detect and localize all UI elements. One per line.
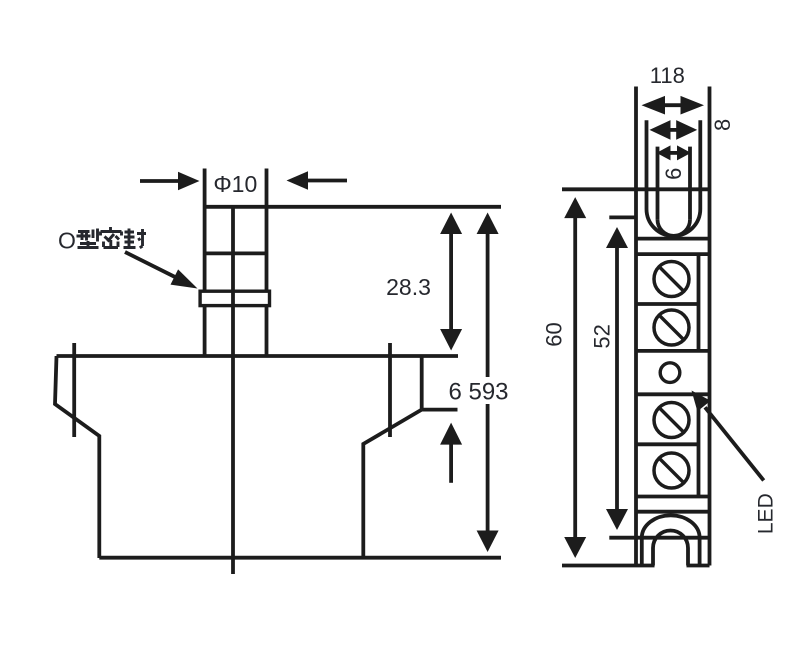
body left outline <box>55 356 99 558</box>
right view: line below box1 <box>636 349 710 353</box>
left view: tube center line <box>231 207 235 574</box>
body bottom line <box>99 556 501 560</box>
right view: divider line box2 <box>636 442 699 446</box>
screw terminal 1 circle <box>654 262 689 297</box>
body left tick <box>72 343 76 437</box>
label CJK mi (seal) glyph strokes <box>101 227 122 248</box>
right view: inner vertical upper <box>697 254 701 351</box>
right view: clip big arc <box>642 515 700 565</box>
dimension 60 line <box>573 216 577 539</box>
right view: divider line box1 <box>636 302 699 306</box>
svg-text:O: O <box>58 228 76 254</box>
LED indicator circle <box>660 363 680 383</box>
dimension 6.5 arrow shaft <box>449 443 453 483</box>
right view: tube outer left line <box>645 120 649 209</box>
svg-text:8: 8 <box>710 119 735 131</box>
dimension 8 right arrowhead <box>676 120 697 140</box>
right view: tube inner left line <box>656 147 660 220</box>
right view: bottom edge left segment <box>562 564 655 568</box>
right view: tube outer U curve <box>647 209 701 236</box>
arrowhead right Phi10 <box>287 171 309 189</box>
dimension 93 top arrowhead <box>477 213 499 235</box>
dimension 6 left arrowhead <box>657 145 671 160</box>
svg-text:LED: LED <box>755 493 778 534</box>
dimension 60 top arrowhead <box>564 197 586 218</box>
O-ring pointer line <box>125 252 178 279</box>
left view: probe tube left outline <box>203 169 207 357</box>
body step extension line <box>422 408 458 412</box>
dimension 93 bottom arrowhead <box>477 531 499 553</box>
right view: 52 top extension line <box>609 215 636 219</box>
dimension 6.5 arrowhead <box>440 423 462 445</box>
screw terminal 3 circle <box>654 403 689 438</box>
dimension 52 top arrowhead <box>606 227 628 248</box>
screw terminal 1 slot <box>660 267 684 291</box>
dimension 28.3 line <box>449 234 453 332</box>
right view: inner vertical lower <box>697 394 701 496</box>
svg-text:28.3: 28.3 <box>386 274 431 300</box>
dimension 11.8 arrow shaft <box>663 103 683 107</box>
dimension 28.3 top arrowhead <box>440 213 462 235</box>
svg-text:52: 52 <box>589 324 614 348</box>
svg-text:60: 60 <box>541 322 566 346</box>
right view: body right outline <box>708 87 712 566</box>
screw terminal 3 slot <box>660 408 684 432</box>
body right tick <box>388 343 392 437</box>
svg-text:Φ10: Φ10 <box>213 171 257 197</box>
dimension 8 left arrowhead <box>650 120 671 140</box>
LED pointer arrowhead <box>692 391 711 412</box>
LED pointer line <box>705 407 764 480</box>
right view: band line 1 <box>636 237 710 241</box>
svg-text:6: 6 <box>661 168 686 180</box>
arrowhead left Phi10 <box>178 172 200 190</box>
dimension 52 bottom arrowhead <box>606 509 628 530</box>
svg-text:118: 118 <box>650 63 685 88</box>
right view: line below box2 <box>636 495 710 499</box>
right view: body left outline <box>634 87 638 566</box>
left view: probe tube right outline <box>265 169 269 357</box>
svg-text:6 593: 6 593 <box>448 379 508 406</box>
O-ring seal rectangle <box>200 291 269 305</box>
label CJK feng (sealing) glyph strokes <box>124 229 147 248</box>
body right outline diagonal <box>363 410 421 558</box>
body right corner vertical <box>420 356 424 410</box>
dimension 11.8 right arrowhead <box>681 96 705 115</box>
right view: bottom band line <box>636 510 710 514</box>
screw terminal 4 slot <box>660 459 684 483</box>
right view: tube inner right line <box>688 147 692 220</box>
left view: tube cross line upper (extends to dimension lines) <box>205 205 501 209</box>
dimension 52 line <box>615 246 619 511</box>
dimension 8 arrow shaft <box>669 128 679 132</box>
label arrow to Phi10 right <box>306 179 347 183</box>
dimension 93 line lower segment <box>486 404 490 532</box>
screw terminal 2 slot <box>660 316 684 340</box>
right view: tube inner U curve <box>658 220 691 236</box>
dimension 6 right arrowhead <box>677 145 691 160</box>
label CJK xing (type) glyph strokes <box>77 229 99 248</box>
dimension 28.3 bottom arrowhead <box>440 329 462 351</box>
left view: tube cross line lower <box>205 251 267 255</box>
body top line <box>57 354 459 358</box>
right view: clip base line <box>609 536 709 540</box>
right view: line below LED section <box>636 392 710 396</box>
right view: bottom edge right segment <box>687 564 710 568</box>
O-ring pointer arrowhead <box>171 269 198 288</box>
dimension 6 arrow shaft <box>667 151 680 155</box>
label arrow to Phi10 left <box>140 179 180 183</box>
dimension 93 line <box>486 234 490 377</box>
right view: tube outer right line <box>698 120 702 209</box>
right view: mounting plane line <box>562 187 710 191</box>
right view: clip small arch <box>653 531 688 566</box>
dimension 11.8 left arrowhead <box>642 96 666 115</box>
dimension 60 bottom arrowhead <box>564 537 586 558</box>
right view: band line 2 <box>636 252 710 256</box>
screw terminal 2 circle <box>654 310 689 345</box>
screw terminal 4 circle <box>654 453 689 488</box>
